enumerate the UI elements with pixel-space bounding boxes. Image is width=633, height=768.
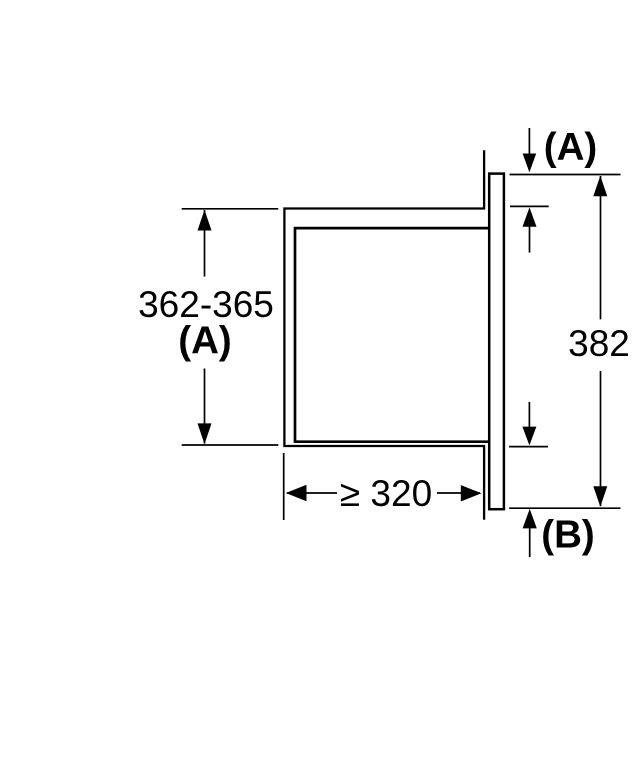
gap (B) bottom: down arrowhead (522, 427, 536, 446)
dim >=320: left arrowhead (286, 485, 307, 501)
svg-text:(B): (B) (541, 514, 594, 557)
dim 362-365: dimension line upper segment (204, 210, 206, 277)
dim 362-365: dimension line lower segment (204, 369, 206, 444)
dim 382: dimension line lower segment (600, 371, 602, 506)
dim >=320: left extension line (283, 453, 285, 520)
dim >=320: dimension line right segment (437, 492, 480, 494)
dim >=320: right arrowhead (461, 485, 482, 501)
gap (A) top: up arrow stem (529, 226, 531, 253)
gap (B) bottom: upper tick line (509, 446, 548, 448)
dim 382: dimension line upper segment (600, 176, 602, 319)
gap (B) bottom: up arrow stem (529, 528, 531, 558)
gap (A) top: lower tick line (510, 205, 549, 207)
svg-text:≥ 320: ≥ 320 (340, 473, 432, 514)
gap (B) bottom: up arrowhead (523, 509, 537, 529)
dim 362-365: down arrowhead (198, 423, 212, 444)
appliance front panel bar (489, 174, 504, 510)
dim 382: bottom reference line (509, 507, 620, 509)
gap (A) top: down arrowhead (523, 154, 537, 173)
svg-text:382: 382 (568, 323, 630, 364)
dim >=320: dimension line left segment (287, 492, 337, 494)
dim 382: top reference line (510, 174, 621, 176)
dim 382: up arrowhead (593, 176, 607, 197)
dim 362-365: top extension line (182, 208, 279, 210)
gap (B) bottom: down arrow stem (528, 402, 530, 428)
gap (A) top: down arrow stem (528, 128, 530, 156)
gap (A) top: up arrowhead (523, 207, 537, 226)
svg-text:(A): (A) (178, 320, 231, 363)
cabinet inner niche outline (295, 228, 489, 442)
dim 362-365: bottom extension line (182, 444, 279, 446)
cabinet outer outline (284, 150, 484, 520)
svg-text:(A): (A) (544, 126, 597, 169)
dim 362-365: up arrowhead (198, 210, 212, 231)
dim 382: down arrowhead (593, 486, 607, 507)
